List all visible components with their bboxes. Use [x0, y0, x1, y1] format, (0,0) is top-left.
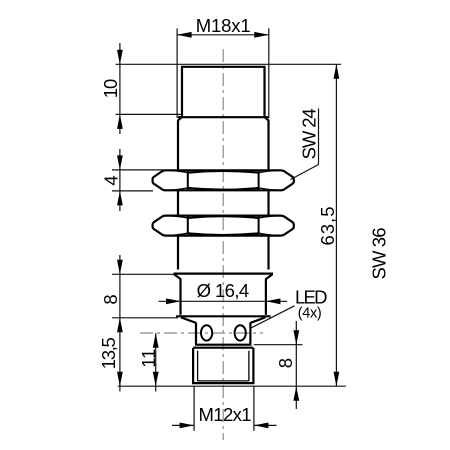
connector thread shoulder line — [198, 380, 249, 382]
extension line nut bottom — [112, 190, 153, 192]
Ø16,4 arrow right — [266, 298, 281, 304]
svg-text:63,5: 63,5 — [317, 207, 338, 246]
11 dimension line — [155, 333, 157, 391]
shoulder chamfer right — [265, 117, 269, 121]
horizontal centerline (LED row) — [140, 332, 263, 334]
shoulder chamfer left — [178, 117, 182, 121]
M18x1 dimension line — [177, 34, 269, 36]
svg-text:4: 4 — [101, 175, 122, 185]
extension line M12 right — [253, 386, 255, 431]
lip chamfer left — [174, 274, 181, 279]
10 arrow bottom — [117, 114, 123, 128]
hex nut 1 — [153, 170, 294, 190]
LED ring right edge — [249, 323, 251, 345]
barrel right edge segments — [267, 120, 269, 171]
svg-text:Ø 16,4: Ø 16,4 — [197, 280, 250, 301]
svg-text:M12x1: M12x1 — [199, 404, 252, 425]
10 arrow top — [117, 50, 123, 65]
LED window left — [201, 325, 212, 340]
left dimension line column — [119, 43, 121, 134]
svg-text:LED: LED — [295, 287, 328, 308]
LED ring bottom line — [195, 344, 252, 346]
8 left arrow top — [117, 260, 123, 275]
M18 arrow left — [177, 32, 192, 38]
LED leader — [250, 306, 295, 329]
4 arrow bottom — [117, 191, 123, 206]
8/13,5 shared arrow — [117, 318, 123, 333]
svg-text:SW 24: SW 24 — [299, 108, 320, 159]
Ø16,4 arrow left — [166, 298, 181, 304]
extension line flange (8 bottom / 13,5 top) — [112, 317, 178, 319]
LED ring left edge — [195, 323, 197, 345]
4 arrow top — [117, 155, 123, 170]
top cap rectangle (sensing face) — [182, 67, 265, 117]
svg-text:11: 11 — [138, 349, 159, 368]
extension line bottom face — [118, 385, 346, 387]
vertical centerline — [222, 49, 224, 440]
mid body (Ø16,4) left edge — [179, 279, 181, 315]
M12 arrow left — [180, 423, 195, 429]
hex nut 2 — [153, 216, 294, 236]
connector thread minor line left — [197, 351, 199, 381]
svg-text:SW 36: SW 36 — [369, 228, 390, 280]
svg-text:10: 10 — [100, 79, 121, 99]
M18 arrow right — [254, 32, 268, 38]
63,5 dimension line — [335, 64, 337, 386]
13,5 arrow bottom — [117, 372, 123, 387]
svg-text:8: 8 — [100, 294, 121, 304]
extension line M18 left — [176, 28, 178, 118]
flange chamfer right — [250, 317, 265, 323]
63,5 arrow top — [334, 64, 340, 79]
svg-text:(4x): (4x) — [298, 306, 322, 322]
M12x1 dimension line right stub — [254, 424, 277, 426]
M12x1 dimension line left stub — [172, 424, 194, 426]
LED window right — [235, 325, 246, 340]
Ø16,4 dimension line — [159, 300, 288, 302]
connector thread minor line right — [248, 351, 250, 381]
lip chamfer right — [266, 274, 273, 279]
63,5 arrow bottom — [334, 372, 340, 387]
mid body (Ø16,4) right edge — [265, 279, 267, 315]
extension line M18 right — [268, 28, 270, 118]
thread runout lip at barrel bottom — [174, 273, 274, 275]
mid body bottom flange line — [176, 315, 271, 317]
flange chamfer left — [181, 317, 196, 323]
extension line nut top — [112, 169, 164, 171]
11 arrow bottom — [153, 372, 159, 387]
M12 connector body — [193, 348, 253, 383]
extension line cap bottom — [116, 113, 181, 115]
svg-text:8: 8 — [275, 358, 296, 368]
svg-text:13,5: 13,5 — [98, 337, 119, 369]
8 right arrow bottom — [293, 386, 299, 401]
M12 arrow right — [254, 423, 269, 429]
extension line ring bottom (8 right top) — [254, 344, 303, 346]
8 right arrow top — [293, 330, 299, 345]
shoulder line under cap — [178, 116, 269, 118]
extension line M12 left — [193, 386, 195, 431]
8 right dimension line — [295, 321, 297, 409]
barrel left edge segments — [177, 120, 179, 171]
svg-text:M18x1: M18x1 — [196, 15, 251, 36]
SW 24 leader — [291, 165, 319, 180]
extension line top face — [116, 63, 342, 65]
11 arrow top — [153, 333, 159, 348]
SW 24 leader underline — [318, 109, 320, 165]
extension line shoulder (8 top) — [112, 273, 174, 275]
